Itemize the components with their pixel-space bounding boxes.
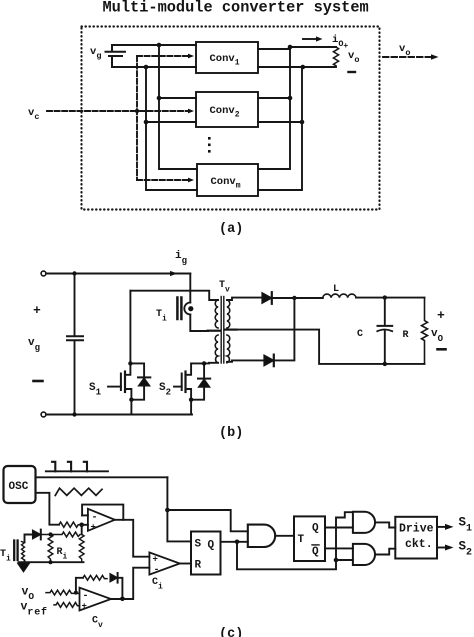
- node S1 drain: [128, 361, 132, 365]
- node rectifier output: [292, 296, 296, 300]
- clock pulse waveform: [46, 462, 108, 472]
- node summing X: [79, 523, 84, 528]
- wire dashed control to Conv2: [140, 109, 194, 114]
- wire A1 inverting input: [82, 514, 88, 516]
- wire Ti bottom rail: [19, 561, 84, 563]
- drive circuit box: [395, 517, 437, 559]
- wire node X riser: [81, 525, 83, 535]
- battery vg: [106, 45, 126, 67]
- wire A4 output to drive: [375, 549, 395, 555]
- current transformer Ti (c): [14, 541, 24, 561]
- body diode S1: [130, 363, 150, 399]
- wire OSC clock output: [36, 476, 168, 478]
- svg-text:S2: S2: [459, 540, 473, 559]
- svg-text:OSC: OSC: [9, 481, 29, 493]
- svg-text:S2: S2: [159, 382, 171, 398]
- svg-text:(c): (c): [219, 627, 243, 637]
- svg-text:Drive: Drive: [399, 523, 434, 536]
- and gate A3: [353, 512, 375, 533]
- diode Cv feedback: [110, 573, 118, 583]
- svg-text:Ri: Ri: [57, 547, 68, 562]
- wire dashed control to Convm: [137, 178, 194, 183]
- node Conv2 left bottom: [144, 120, 149, 125]
- wire Conv2 left top: [159, 97, 196, 99]
- wire Q to and gate A2: [221, 541, 248, 543]
- op-amp comparator A1: [88, 509, 115, 533]
- wire Ti to center tap: [190, 315, 208, 332]
- arrow S1 output: [437, 524, 454, 530]
- node load bottom: [301, 65, 306, 70]
- label Ci: [152, 577, 163, 592]
- svg-text:Q: Q: [312, 523, 319, 535]
- wire S1 source to rail: [130, 400, 132, 415]
- label vg (a): [90, 46, 101, 61]
- oscillator OSC box: [4, 466, 36, 503]
- label S1: [89, 382, 102, 398]
- wire L to output: [356, 297, 425, 299]
- svg-text:C: C: [357, 329, 363, 340]
- wire D1 to node: [272, 297, 295, 299]
- resistor Ri right: [79, 534, 84, 562]
- svg-text:Multi-module converter system: Multi-module converter system: [103, 0, 369, 16]
- transformer Tv primary upper winding: [215, 300, 218, 328]
- wire D2 to node riser: [274, 298, 295, 360]
- and gate A4: [353, 544, 375, 565]
- wire dashed control bus: [136, 56, 138, 180]
- resistor Ri left: [48, 534, 53, 562]
- node load top: [288, 45, 293, 50]
- wire A1 feedback loop: [82, 505, 123, 520]
- svg-text:+: +: [153, 555, 158, 565]
- svg-text:vg: vg: [90, 46, 101, 61]
- svg-text:+: +: [437, 308, 445, 323]
- svg-text:Cv: Cv: [92, 616, 103, 631]
- wire S2 source to rail: [189, 400, 191, 415]
- svg-text:T: T: [298, 534, 305, 546]
- resistor after diode: [41, 532, 80, 537]
- wire Ci output to R input: [180, 563, 191, 565]
- arrow ig on top rail: [160, 271, 178, 276]
- resistor load (a): [333, 47, 338, 66]
- node Ri left top: [49, 532, 53, 536]
- wire A2 output to T: [275, 535, 294, 537]
- wire secondary lower to D2: [227, 360, 264, 361]
- label (b): [219, 426, 243, 441]
- resistor Cv feedback: [83, 575, 107, 580]
- label Ti (c): [0, 549, 11, 564]
- dotted system boundary box (a): [82, 27, 380, 210]
- capacitor C output: [377, 298, 392, 364]
- wire clock branch to and gate: [167, 510, 247, 531]
- label (c): [219, 627, 243, 637]
- svg-text:vref: vref: [21, 601, 48, 619]
- ground: [18, 563, 30, 572]
- arrow vo output dashed: [383, 54, 439, 60]
- svg-text:-: -: [154, 565, 160, 576]
- wire load top: [290, 46, 336, 48]
- node S2 drain: [202, 361, 206, 365]
- wire bottom rail (a): [112, 66, 196, 68]
- label S2 output: [459, 540, 473, 559]
- resistor R output: [422, 298, 428, 364]
- wire node to L: [294, 297, 322, 299]
- svg-text:Q: Q: [312, 546, 319, 558]
- node Cv output: [120, 597, 125, 602]
- label vref: [21, 601, 48, 619]
- wire output minus bus: [258, 67, 302, 190]
- svg-text:L: L: [333, 284, 339, 295]
- transformer Tv core: [221, 297, 224, 364]
- svg-text:vg: vg: [28, 337, 40, 353]
- op-amp comparator Cv: [80, 588, 112, 612]
- S1 drain riser: [129, 291, 131, 364]
- svg-text:(b): (b): [219, 426, 243, 441]
- svg-text:+: +: [82, 602, 87, 612]
- transformer Tv label: [219, 280, 230, 295]
- overbar Qbar: [312, 544, 319, 546]
- wire top rail (a): [112, 44, 196, 46]
- label C: [357, 329, 363, 340]
- svg-text:S1: S1: [89, 382, 102, 398]
- node bottom rail cap: [72, 412, 76, 416]
- svg-text:ig: ig: [175, 250, 187, 266]
- wire Q long branch bottom: [237, 512, 353, 569]
- svg-text:vo: vo: [348, 50, 359, 65]
- node Q branch: [235, 540, 240, 545]
- label vo sense: [22, 586, 35, 603]
- node S1 source: [129, 398, 133, 402]
- node Conv2 right top: [288, 96, 293, 101]
- label vo inside box: [348, 50, 359, 65]
- inductor L: [323, 294, 356, 298]
- svg-text:S1: S1: [459, 516, 473, 535]
- op-amp comparator Ci: [149, 552, 179, 576]
- node filter cap bottom: [383, 362, 387, 366]
- wire primary lower end to S2 drain: [191, 362, 218, 365]
- wire output plus bus: [258, 47, 290, 169]
- diode rectifier (c): [33, 530, 41, 540]
- label Cv: [92, 616, 103, 631]
- resistor ramp summing: [59, 522, 81, 527]
- wire Cv feedback riser: [76, 578, 83, 593]
- wire minus bus to Conv2 and Convm: [146, 67, 197, 190]
- wire ig drop to Ti: [189, 274, 191, 303]
- wire A1 output to Ci: [115, 520, 150, 557]
- svg-text:R: R: [195, 560, 202, 572]
- resistor vo input: [46, 590, 80, 595]
- wire primary upper end to S1 drain: [130, 291, 218, 300]
- resistor vref input: [54, 603, 80, 608]
- svg-text:Tv: Tv: [219, 280, 230, 295]
- wire clock down to S input: [167, 477, 191, 541]
- wire Conv2 right top: [258, 97, 290, 99]
- svg-text:(a): (a): [219, 222, 243, 237]
- wire A3 output to drive: [375, 522, 395, 527]
- title: Multi-module converter system: [103, 0, 369, 16]
- label R: [403, 330, 409, 341]
- transformer center tap bars: [208, 330, 237, 331]
- label ig: [175, 250, 187, 266]
- node top rail / bus1: [157, 43, 162, 48]
- svg-text:S: S: [195, 539, 202, 551]
- wire bottom rail (b): [46, 414, 192, 416]
- node bottom rail / bus2: [144, 65, 149, 70]
- svg-text:Ci: Ci: [152, 577, 163, 592]
- node Conv2 right bottom: [300, 120, 305, 125]
- transformer Tv secondary upper winding: [227, 300, 230, 328]
- svg-text:-: -: [83, 591, 89, 602]
- terminal bottom-left (b): [41, 412, 46, 417]
- arrow S2 output: [437, 545, 454, 551]
- ellipsis dots between modules: [208, 137, 211, 153]
- svg-text:Convm: Convm: [211, 176, 241, 191]
- label Ri: [57, 547, 68, 562]
- node filter cap top: [383, 295, 387, 299]
- wire Ti top to diode: [25, 535, 33, 542]
- svg-text:+: +: [91, 523, 96, 533]
- label vc: [28, 107, 39, 122]
- T flipflop box: [294, 516, 325, 561]
- label plus vg minus (b): [28, 303, 41, 353]
- converter module Convm: [197, 164, 258, 196]
- diode D2: [264, 355, 274, 367]
- wire Cv output: [111, 568, 149, 599]
- node S2 source: [189, 398, 193, 402]
- svg-text:Q: Q: [208, 540, 215, 552]
- and gate A2: [248, 525, 275, 547]
- wire T Qbar output to A4: [325, 547, 353, 549]
- SR latch box: [191, 532, 221, 575]
- wire A1 noninverting input: [82, 524, 88, 526]
- label S1 output: [459, 516, 473, 535]
- wire Conv1 right bottom: [258, 66, 302, 68]
- label vo outside: [399, 43, 410, 58]
- node clock branch: [165, 508, 170, 513]
- mosfet S2: [174, 363, 191, 399]
- svg-text:vo: vo: [399, 43, 410, 58]
- svg-text:vO: vO: [431, 328, 444, 344]
- label plus vo minus (b): [431, 308, 445, 344]
- wire dashed control to Conv1: [137, 54, 194, 59]
- terminal top-left (b): [41, 271, 46, 276]
- wire load bottom: [302, 66, 336, 68]
- converter module Conv1: [196, 42, 258, 73]
- node vc control junction: [135, 109, 139, 113]
- wire Conv1 right top: [258, 48, 290, 50]
- wire top rail (b): [46, 273, 190, 275]
- node Conv2 left top: [157, 96, 162, 101]
- current transformer Ti (b): [177, 298, 193, 320]
- node Q branch to A4: [334, 558, 339, 563]
- svg-text:Ti: Ti: [156, 309, 167, 324]
- label S2: [159, 382, 171, 398]
- svg-text:iO+: iO+: [332, 34, 348, 51]
- wire OSC ramp output: [36, 493, 60, 525]
- svg-text:vc: vc: [28, 107, 39, 122]
- svg-text:ckt.: ckt.: [405, 538, 433, 551]
- body diode S2: [191, 363, 210, 399]
- label (a): [219, 222, 243, 237]
- node capacitor branch top: [72, 271, 76, 275]
- converter module Conv2: [196, 92, 258, 127]
- wire Conv2 right bottom: [258, 121, 302, 123]
- sawtooth ramp waveform: [55, 488, 102, 495]
- wire Q branch to A4 input: [336, 559, 353, 561]
- wire vc dashed control line: [47, 110, 134, 112]
- mosfet S1: [108, 363, 131, 399]
- svg-text:Conv2: Conv2: [210, 105, 240, 120]
- wire plus bus to Conv2 and Convm: [159, 45, 197, 169]
- wire secondary center tap to output return: [237, 330, 425, 364]
- diode D1: [262, 292, 272, 304]
- svg-text:Ti: Ti: [0, 549, 11, 564]
- wire Cv feedback to output: [118, 578, 123, 599]
- label iO with arrow: [332, 34, 348, 51]
- transformer Tv primary lower winding: [215, 335, 218, 363]
- arrow io current: [303, 36, 323, 41]
- svg-text:+: +: [33, 303, 41, 318]
- wire T Q output to A3: [325, 527, 353, 529]
- transformer Tv secondary lower winding: [227, 335, 230, 363]
- svg-text:R: R: [403, 330, 409, 341]
- wire secondary upper to D1: [227, 298, 262, 300]
- node Ri bottom: [49, 560, 53, 564]
- capacitor input (b): [67, 274, 83, 415]
- svg-text:Conv1: Conv1: [210, 53, 240, 68]
- node Cv feedback tap: [74, 591, 78, 595]
- label L: [333, 284, 339, 295]
- wire Conv2 left bottom: [146, 121, 196, 123]
- label Ti (b): [156, 309, 167, 324]
